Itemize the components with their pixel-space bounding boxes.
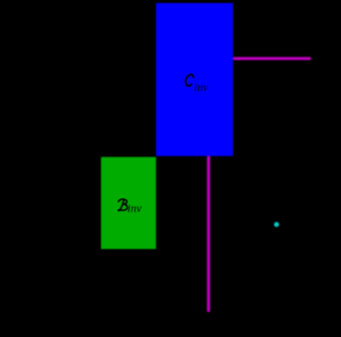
svg-text:inv: inv xyxy=(194,82,209,94)
svg-text:inv: inv xyxy=(127,202,142,214)
